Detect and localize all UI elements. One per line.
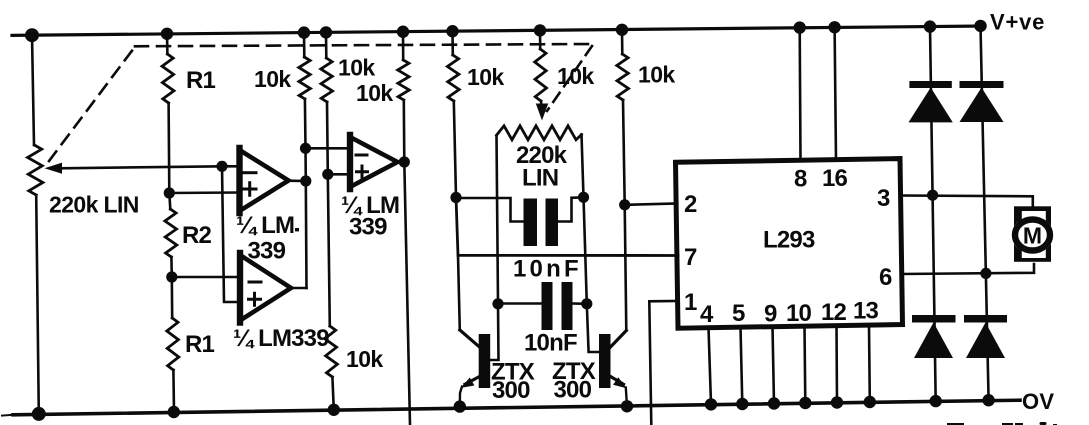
wire pin 5 [741,327,743,404]
node top rail junction 2 [161,28,173,40]
node U2 non-inverting input [322,169,333,180]
node top rail junction 5 [397,26,409,38]
node bottom rail junction 12 [930,395,942,407]
svg-text:1: 1 [684,289,697,316]
wire diode branch B [981,26,989,400]
diode D4 (lower right) [964,315,1007,323]
wire top supply rail V+ve [12,26,985,35]
wire U1 inverting input from wiper [222,165,239,168]
capacitor C2 10nF leads [498,302,541,305]
node C1 right / VR2 right [578,192,589,203]
svg-text:2: 2 [684,191,697,218]
svg-text:339: 339 [248,238,286,265]
node top rail junction 3 [298,26,310,38]
wire stub left of bottom rail end [2,414,11,417]
node top rail junction 4 [320,26,332,38]
node C2 right / Q2 base [581,298,592,309]
node C1 left [450,192,461,203]
resistor 10k (first comparator pull-up) [303,33,306,57]
capacitor C1 plates [524,199,538,247]
svg-text:10: 10 [786,300,812,327]
wiper arrow into VR2 [536,104,548,121]
svg-text:6: 6 [879,264,892,291]
wire down to Q1 collector [458,255,460,330]
svg-text:300: 300 [492,377,530,404]
resistor 10k (second comparator pull-up) [402,32,405,60]
wire pin 10 [803,326,806,403]
node top rail junction 10 [828,21,840,33]
wire pin 16 to rail [835,27,836,160]
resistor R1 (bottom) [167,318,179,370]
wire U3 inverting input from R2/R1 junction [172,276,239,279]
node pin3 / diode A [927,190,938,201]
U3 plus sign [249,293,261,305]
IC U4 L293 outline [676,159,903,329]
svg-text:R1: R1 [186,67,216,94]
svg-text:R2: R2 [182,222,212,249]
wire comparator-2 output down off-page [404,162,410,425]
svg-text:L293: L293 [763,227,815,254]
node bottom rail junction 9 [799,397,811,409]
node bottom rail junction 2 [168,406,180,418]
node bottom rail junction 1 [32,407,46,421]
svg-text:5: 5 [732,300,745,327]
svg-text:10nF: 10nF [513,256,582,283]
svg-text:10k: 10k [467,64,504,90]
node top rail junction 12 [974,20,986,32]
node U2 output [399,156,410,167]
caption fragment Fig [947,423,964,425]
node U2 inverting input [300,143,311,154]
svg-text:¼ LM: ¼ LM [236,212,294,239]
svg-text:220k LIN: 220k LIN [49,192,139,218]
node top rail junction 11 [924,20,936,32]
resistor 10k (x622 to L293 pin2) [621,30,624,54]
wire pin 1 [649,301,678,425]
caption fragment 2b [1015,423,1023,425]
svg-text:339: 339 [349,214,387,241]
node bottom rail junction 5 [621,400,633,412]
caption fragment 2 [1002,423,1013,425]
svg-text:10k: 10k [338,55,375,81]
node C2 left / Q1 base [492,298,503,309]
svg-text:10k: 10k [557,63,594,89]
wire U1 inverting node down to U3 non-inverting input [222,166,239,302]
svg-text:10k: 10k [346,346,383,372]
wire VR2 left end down [497,136,499,304]
op-amp U3 1/4 LM339 [240,255,291,321]
resistor 10k (divider bottom) [325,326,338,377]
svg-text:12: 12 [821,299,847,326]
caption fragment 3 [1040,422,1047,425]
wire C1 node to L293 pin 7 [456,197,678,256]
Q2 base wire from C2 node [587,304,599,352]
svg-text:300: 300 [554,377,592,404]
resistor R1 (top) [162,54,174,103]
node top rail junction 7 [534,24,546,36]
node U1 output [300,175,311,186]
wire U1 output [289,179,306,182]
wire pin 2 [625,204,677,205]
node bottom rail junction 13 [982,394,994,406]
node bottom rail junction 4 [454,400,466,412]
op-amp U1 1/4 LM339 [240,150,289,211]
resistor 10k (x452 to C1) [451,31,454,55]
wire diode branch A [930,27,936,402]
svg-text:¼ LM339: ¼ LM339 [233,325,329,352]
wire U2 non-inverting input [328,173,349,176]
wire pin 3 to motor [901,196,1033,207]
wire U1 non-inverting input from R1/R2 [169,191,239,194]
node top rail junction 1 [25,28,39,42]
svg-text:3: 3 [877,185,890,212]
U1 minus sign [244,171,256,174]
resistor 10k (wiper feed) [539,30,542,49]
svg-text:OV: OV [1022,389,1054,414]
caption fragment dot [1053,424,1057,425]
node bottom rail junction 6 [705,398,717,410]
U2 minus sign [356,154,367,157]
svg-text:10k: 10k [356,80,393,106]
U2 plus sign [357,166,368,177]
op-amp U2 1/4 LM339 [350,137,398,187]
node bottom rail junction 3 [328,404,340,416]
U1 plus sign [244,183,257,196]
svg-text:8: 8 [794,166,807,193]
node bottom rail junction 10 [831,396,843,408]
Q2 collector wire up to pin2 node [625,205,627,331]
svg-text:V+ve: V+ve [990,10,1045,35]
node top rail junction 9 [794,21,806,33]
node top rail junction 8 [616,24,628,36]
wire bottom 0V rail [13,400,1020,415]
motor M1 [1014,206,1051,261]
svg-text:M: M [1023,223,1042,249]
diode D2 (upper right) [960,81,1004,88]
resistor R2 [165,209,177,257]
wire U3 output up to U1 output node [291,287,307,290]
dashed mechanical-link line (horizontal) [135,44,592,46]
node L293 pin2 node [619,199,630,210]
svg-text:4: 4 [700,301,714,328]
node bottom rail junction 8 [768,397,780,409]
wire pin 8 to rail [798,28,801,161]
dashed mechanical-link diagonal to left pot wiper [49,48,134,161]
node bottom rail junction 11 [864,396,876,408]
svg-text:10k: 10k [638,62,675,88]
svg-text:10k: 10k [254,66,291,92]
potentiometer VR1 220k LIN (left) body [32,35,34,145]
potentiometer VR2 220k LIN (horizontal) [497,126,582,140]
node bottom rail junction 7 [736,398,748,410]
wiper arrow of VR1 [60,166,222,168]
svg-text:LIN: LIN [522,165,558,192]
wire pin 12 [835,326,838,403]
svg-text:R1: R1 [185,331,215,358]
U3 minus sign [249,281,261,284]
resistor 10k (divider top) [325,32,328,58]
wire pin 6 to motor [902,264,1035,274]
node U3 inverting input [166,271,177,282]
svg-text:9: 9 [764,301,777,328]
dashed mechanical-link diagonal to middle pot wiper [547,46,592,111]
label U1 period [295,228,299,231]
node U1 non-inverting input [164,187,175,198]
wire U2 inverting input [306,147,350,150]
node pin6 / diode B [980,268,991,279]
capacitor C1 10nF leads [456,198,523,222]
Q1 base wire from C2 node [490,304,499,360]
node top rail junction 6 [446,25,458,37]
svg-text:16: 16 [822,165,848,192]
wire pin 9 [773,327,775,404]
svg-text:13: 13 [853,298,879,325]
transistor Q1 ZTX300 [479,334,491,388]
svg-text:7: 7 [684,244,697,271]
diode D3 (lower left) [912,315,956,323]
node U1 inverting input [216,161,227,172]
diode D1 (upper left) [909,81,951,88]
transistor Q2 ZTX300 [599,334,611,388]
wire pin 13 [868,326,871,402]
wire VR2 right end down [582,135,587,304]
svg-text:10nF: 10nF [524,330,577,357]
capacitor C2 plates [542,282,553,330]
wire pin 4 [709,328,712,405]
wire U2 output [398,161,405,164]
